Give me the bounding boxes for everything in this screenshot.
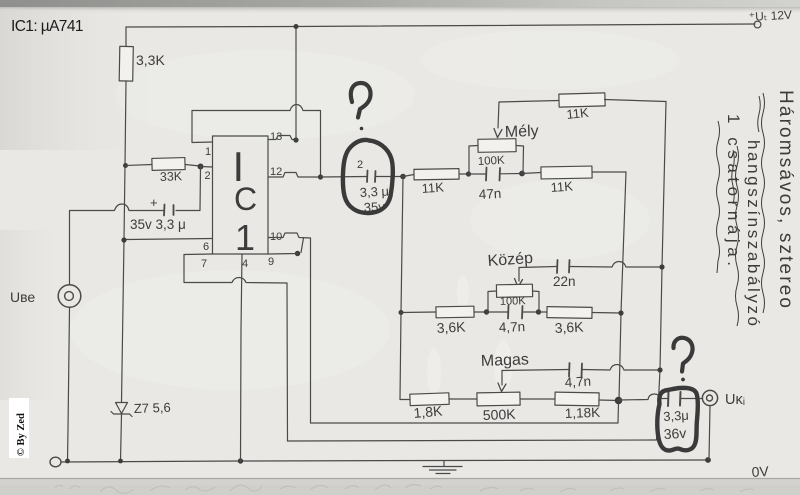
wire pin13 to +12V rail [295, 27, 297, 140]
node F pin12 feedback junction [318, 174, 323, 179]
svg-text:100K: 100K [478, 155, 506, 168]
node A bias/33K junction [123, 163, 128, 168]
wire 4,7n mid left lead [487, 311, 508, 313]
wire coupling cap right lead [376, 176, 404, 178]
node C pin6-bias junction [121, 237, 126, 242]
svg-text:© By Zed: © By Zed [16, 413, 27, 456]
potentiometer 100K mid [496, 284, 532, 297]
marker circle around output cap [657, 388, 698, 451]
wire Uki down to ground rail [709, 406, 710, 461]
svg-text:3,3 μ: 3,3 μ [359, 183, 389, 200]
wire bass feedback top left [499, 101, 559, 103]
svg-text:47n: 47n [478, 186, 501, 202]
svg-text:1: 1 [205, 146, 211, 158]
wire treble row between pot and right resistor [520, 398, 555, 400]
wire bass row left 11K lead [403, 175, 414, 177]
wire mid pot right wing [533, 291, 540, 312]
svg-text:+: + [150, 195, 158, 210]
node J bass right [519, 171, 525, 177]
wire 33K left lead [126, 165, 153, 166]
wire mid pot wiper [518, 268, 520, 282]
wire treble 4,7n line left [502, 370, 568, 371]
potentiometer 100K bass [478, 139, 516, 153]
wire 47n right lead [500, 173, 522, 175]
svg-text:500K: 500K [483, 406, 517, 423]
wire right vertical rail [657, 102, 667, 441]
wire bass row right to mid rail [592, 171, 626, 173]
wire treble row left lead [400, 399, 410, 401]
svg-text:4,7n: 4,7n [499, 319, 526, 335]
node ground-output [705, 457, 711, 463]
svg-text:Mély: Mély [505, 123, 539, 141]
svg-text:4: 4 [242, 258, 248, 270]
svg-text:Magas: Magas [481, 351, 530, 370]
arrowhead mid wiper [515, 279, 523, 288]
wire treble row between resistor and pot [449, 398, 477, 400]
capacitor 3,3µ 35V coupling plates [367, 171, 376, 183]
wire mid 22n line left [519, 267, 556, 268]
wire output cap to Uki terminal [681, 398, 703, 400]
svg-text:4,7n: 4,7n [564, 374, 591, 390]
wire ground rail [61, 460, 708, 462]
wire bass right 11K lead [522, 173, 541, 174]
wire treble pot wiper [501, 371, 503, 386]
arrowhead bass wiper [494, 129, 502, 138]
wire +12V top rail [126, 24, 755, 27]
wire pin7 extension along IC bottom [184, 253, 213, 256]
wire pin9 extension along IC bottom [268, 253, 298, 256]
svg-text:3,3K: 3,3K [136, 52, 165, 68]
svg-text:11K: 11K [421, 179, 444, 196]
underline wavy 1 [758, 93, 765, 313]
wire mid vertical rail [619, 172, 626, 401]
wire input cap left lead with hop over bias rail [70, 204, 165, 285]
wire mid row right to mid rail [592, 312, 621, 315]
node B inverting input node [198, 164, 204, 170]
wire pin2 stub [201, 166, 213, 169]
wire op-amp output U-route left leg [184, 255, 288, 442]
svg-text:7: 7 [201, 258, 207, 270]
node D pin13 junction [293, 137, 298, 142]
node H pin9/pin10 junction [295, 251, 300, 256]
svg-text:9: 9 [268, 256, 274, 268]
wire bass row mid-left [459, 173, 469, 175]
svg-text:2: 2 [357, 159, 363, 171]
svg-text:22n: 22n [553, 274, 576, 289]
svg-text:Z7 5,6: Z7 5,6 [134, 400, 171, 416]
node ground-Ube [65, 459, 70, 464]
node Q treble output junction [615, 397, 623, 405]
svg-text:3,3μ: 3,3μ [663, 408, 689, 424]
op-amp IC1 body [213, 136, 269, 254]
wire pin4 to ground [241, 254, 243, 461]
node E top rail junction [294, 24, 299, 29]
label IC1 inside [233, 143, 258, 258]
svg-text:35v 3,3 μ: 35v 3,3 μ [130, 217, 186, 232]
wire bass pot left wing [469, 146, 478, 175]
wire mid row between left resistor and cap [474, 311, 487, 313]
arrowhead treble wiper [498, 383, 506, 392]
capacitor 4,7n treble plates [569, 363, 582, 377]
svg-text:2: 2 [205, 170, 211, 182]
wire treble row to output node [599, 399, 619, 402]
resistor 11K bass top [559, 93, 605, 107]
node L mid row left rail [399, 310, 404, 315]
svg-text:36v: 36v [663, 425, 686, 442]
wire pin 6 stub from bias rail [124, 239, 213, 240]
question mark marker near coupling cap [351, 83, 371, 118]
svg-text:IC1: µA741: IC1: µA741 [11, 18, 83, 35]
terminal Ube outer [58, 285, 81, 308]
terminal +Ut 12V [754, 21, 761, 28]
wire mid pot left wing [488, 291, 497, 312]
resistor 1,18K treble right [555, 392, 599, 406]
question mark output dot [681, 378, 685, 382]
node ground-zener [118, 459, 123, 464]
bleed-through squiggles bottom [55, 484, 754, 493]
svg-text:1: 1 [235, 217, 255, 258]
wire pin 10 stub with lead bump [268, 233, 311, 238]
wire 47n left lead [469, 173, 486, 175]
wire Ube down to ground rail [68, 308, 70, 462]
node I bass left [466, 171, 471, 176]
ground symbol [423, 461, 462, 474]
wire pin10 long route to treble output node [311, 238, 619, 423]
wire bass pot right wing [516, 146, 524, 174]
svg-text:Uκᵢ: Uκᵢ [725, 392, 745, 408]
svg-text:33K: 33K [160, 169, 183, 184]
node P treble cap top [657, 367, 662, 372]
capacitor 3,3µ input plates [164, 205, 174, 216]
wire pin 1 feedback loop to pin12 node [192, 105, 321, 178]
marker circle around coupling cap [343, 140, 393, 213]
wire left bias rail upper [125, 27, 127, 47]
wire pin 13 stub with lead bump [268, 136, 296, 140]
svg-text:3,6K: 3,6K [436, 318, 466, 336]
capacitor 47n plates [486, 168, 500, 181]
resistor 1,8K treble left [410, 393, 449, 406]
wire output node to cap with hop over right rail [619, 394, 668, 400]
node ground-pin4 [238, 458, 243, 463]
wire node B down to input cap [176, 167, 201, 211]
wire pin10 short drop to pin9 node [301, 238, 304, 253]
capacitor 4,7n mid plates [508, 306, 523, 319]
resistor 11K bass left [414, 169, 459, 180]
node M mid left [484, 309, 489, 314]
resistor 3,3K [119, 46, 133, 81]
svg-text:3,6K: 3,6K [554, 318, 584, 336]
node K mid cap top [659, 264, 664, 269]
svg-text:12: 12 [270, 166, 282, 178]
watermark By Zed box [9, 398, 29, 458]
question mark marker output [673, 338, 692, 372]
terminal Uki inner [707, 395, 713, 401]
capacitor 22n plates [557, 260, 570, 273]
wire bass pot wiper with arrow [498, 102, 499, 128]
resistor 33K [152, 158, 185, 171]
wire mid row to right resistor [539, 311, 548, 313]
wire mid row left lead [401, 311, 436, 314]
terminal Ube inner [65, 292, 74, 301]
wire left bias rail middle [122, 81, 127, 402]
wire 33K right lead [185, 165, 200, 167]
terminal ground input [50, 457, 61, 467]
wire left vertical rail of tone network [400, 177, 403, 400]
svg-text:Uве: Uве [10, 289, 35, 305]
terminal Uki outer [702, 390, 717, 405]
node G tone network input [400, 174, 406, 180]
wire pin12 node to coupling cap [321, 176, 367, 179]
svg-text:0V: 0V [751, 463, 770, 480]
wire zener to ground rail [121, 414, 122, 461]
svg-text:1,8K: 1,8K [413, 402, 444, 421]
wire treble 4,7n line right with hop over mid rail [582, 365, 660, 371]
question mark dot [360, 127, 364, 131]
svg-text:6: 6 [203, 241, 209, 253]
svg-text:⁺Uₜ 12V: ⁺Uₜ 12V [748, 8, 792, 24]
wire 4,7n mid right lead [523, 311, 539, 313]
resistor 3,6K mid right [547, 307, 592, 319]
wire mid 22n line right with hop over mid rail [570, 262, 663, 268]
node N mid right [536, 309, 541, 314]
zener diode Z7 5,6 [111, 403, 132, 417]
wire pin 12 stub with lead bump [268, 173, 321, 178]
underline wavy 3 [717, 121, 720, 273]
wire bass feedback top right [605, 100, 667, 102]
node O mid rail junction [618, 310, 623, 315]
svg-text:13: 13 [270, 131, 282, 143]
resistor 3,6K mid left [436, 306, 474, 318]
capacitor 3,3µ 36V output plates [668, 392, 681, 407]
svg-text:hangszínszabályzó: hangszínszabályzó [744, 140, 763, 326]
underline wavy 2 [732, 146, 739, 326]
wire op-amp output U-route bottom to right rail [288, 440, 657, 441]
svg-text:Háromsávos, sztereo: Háromsávos, sztereo [775, 90, 796, 308]
svg-text:11K: 11K [566, 105, 590, 122]
svg-text:1,18K: 1,18K [565, 405, 601, 421]
svg-text:C: C [234, 181, 257, 217]
resistor 11K bass right [541, 166, 592, 179]
potentiometer 500K treble [477, 392, 520, 406]
svg-text:11K: 11K [550, 178, 573, 195]
